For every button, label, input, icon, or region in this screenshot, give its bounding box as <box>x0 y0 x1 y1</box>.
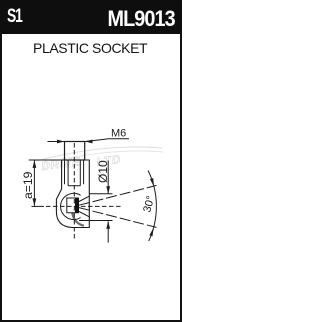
black header bar <box>0 0 182 34</box>
slot section bar (dark) <box>75 198 79 213</box>
body outline <box>29 160 90 228</box>
svg-text:Ø10: Ø10 <box>96 160 110 183</box>
dia10 dimension <box>107 161 109 243</box>
angle arc <box>148 171 156 242</box>
svg-text:a=19: a=19 <box>21 171 35 199</box>
socket slot rectangle <box>67 198 79 213</box>
a=19 dimension <box>33 160 35 206</box>
title PLASTIC SOCKET <box>33 40 147 56</box>
card border <box>0 0 182 322</box>
technical drawing <box>0 0 182 322</box>
vertical centerline <box>73 143 75 240</box>
thread hole outer lines <box>65 160 84 184</box>
cone dashed lines 30deg <box>79 185 157 205</box>
M6 dimension <box>48 141 65 143</box>
svg-text:M6: M6 <box>111 128 126 140</box>
svg-text:30°: 30° <box>141 195 157 214</box>
part number ML9013 <box>108 6 175 32</box>
watermark swoosh top <box>36 147 162 161</box>
threaded rod M6 <box>65 142 85 161</box>
socket opening V lines <box>79 196 89 217</box>
watermark swoosh tail <box>72 213 84 226</box>
ball cavity circle <box>61 193 81 219</box>
horizontal centerline <box>32 205 45 207</box>
thread hole inner lines <box>68 160 80 186</box>
header label S1 <box>7 6 22 28</box>
